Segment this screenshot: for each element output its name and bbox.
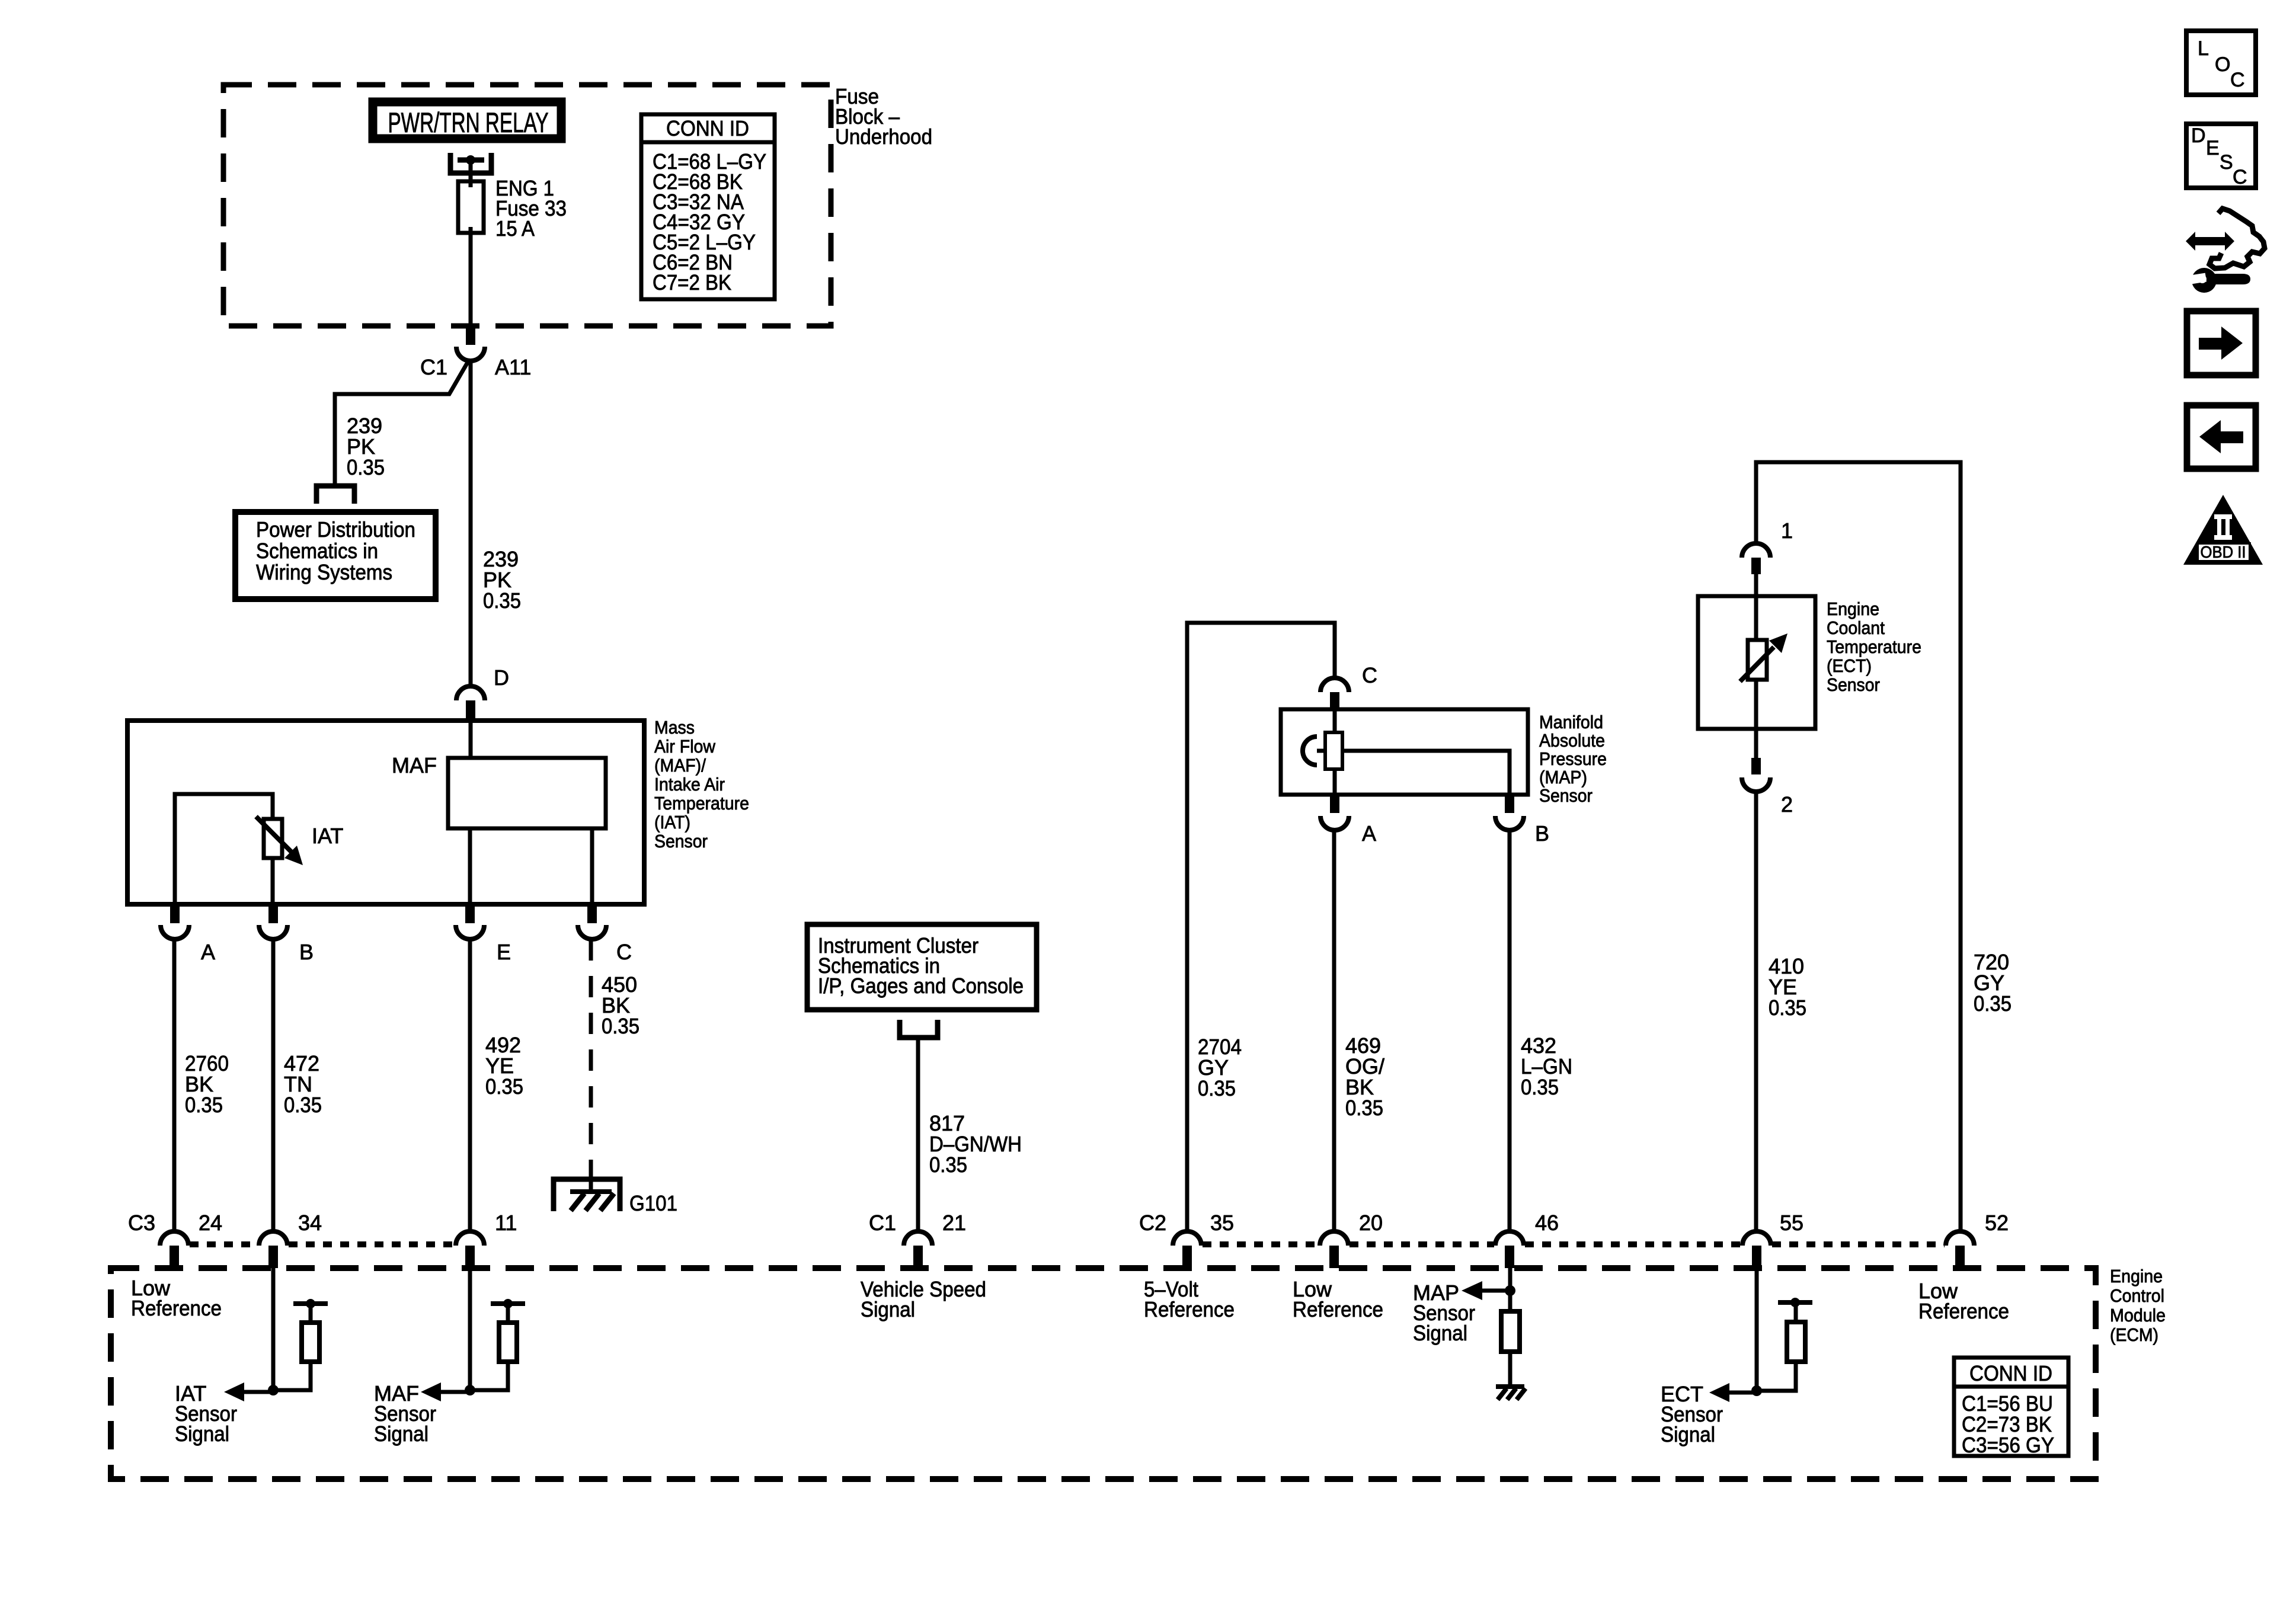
wire 2704 GY with loop to MAP pin C <box>1187 623 1335 1231</box>
svg-text:Schematics in: Schematics in <box>256 539 378 563</box>
svg-text:0.35: 0.35 <box>185 1093 223 1117</box>
svg-text:D: D <box>2191 124 2206 147</box>
svg-text:Signal: Signal <box>1413 1321 1467 1345</box>
ECM pin 34 <box>259 1211 322 1268</box>
wire relay to fuse <box>469 162 473 181</box>
MAF box pin E <box>456 904 511 964</box>
svg-text:0.35: 0.35 <box>602 1014 639 1038</box>
IAT thermistor <box>256 817 343 904</box>
ECM pin C2 35 <box>1139 1211 1234 1268</box>
svg-text:Wiring Systems: Wiring Systems <box>256 560 392 584</box>
svg-text:A11: A11 <box>495 355 531 379</box>
svg-text:IAT: IAT <box>312 824 343 848</box>
svg-text:MAF: MAF <box>392 753 437 777</box>
ECM pin 55 <box>1742 1211 1803 1268</box>
fuse block underhood dashed box <box>223 85 831 326</box>
icon DESC box <box>2186 124 2256 188</box>
svg-text:Temperature: Temperature <box>654 793 749 814</box>
MAF box pin B <box>259 904 314 964</box>
bracket under instrument cluster box <box>900 1020 938 1038</box>
svg-text:Sensor: Sensor <box>654 831 708 852</box>
svg-text:S: S <box>2220 151 2233 174</box>
svg-text:Reference: Reference <box>1293 1297 1383 1321</box>
svg-text:46: 46 <box>1535 1211 1559 1235</box>
MAF box pin A <box>161 904 215 964</box>
svg-text:C: C <box>2233 166 2247 188</box>
ECM pin C1 21 <box>869 1211 966 1268</box>
svg-text:C7=2 BK: C7=2 BK <box>653 270 731 295</box>
svg-text:24: 24 <box>199 1211 222 1235</box>
ECM pin C3 24 <box>128 1211 222 1268</box>
svg-text:0.35: 0.35 <box>284 1093 322 1117</box>
svg-text:Signal: Signal <box>1661 1422 1715 1446</box>
svg-text:0.35: 0.35 <box>483 588 521 613</box>
svg-text:Reference: Reference <box>131 1296 222 1320</box>
ground G101 <box>554 1162 677 1215</box>
wire 817 D-GN/WH <box>916 1038 920 1231</box>
svg-text:0.35: 0.35 <box>347 455 385 479</box>
svg-text:(ECT): (ECT) <box>1827 655 1872 676</box>
svg-text:Underhood: Underhood <box>835 124 932 149</box>
wire E into ECM with junction and arrow MAF Sensor Signal <box>374 1268 475 1446</box>
svg-text:11: 11 <box>495 1211 517 1235</box>
connector 1 (ECT) <box>1742 518 1793 596</box>
svg-text:C1: C1 <box>420 355 447 379</box>
svg-text:0.35: 0.35 <box>1769 996 1806 1020</box>
svg-text:L: L <box>2198 37 2209 60</box>
label Mass Air Flow (MAF)/ Intake Air Temperature (IAT) Sensor <box>654 717 749 852</box>
svg-text:Pressure: Pressure <box>1539 748 1607 769</box>
svg-text:2: 2 <box>1781 792 1793 817</box>
wire branch 239 PK to power distribution <box>335 360 469 487</box>
MAF pull-up resistor inside ECM <box>470 1299 525 1390</box>
svg-text:Power Distribution: Power Distribution <box>256 517 415 542</box>
IAT pull-up resistor inside ECM <box>273 1299 328 1390</box>
svg-text:C: C <box>1362 663 1377 687</box>
svg-text:C3: C3 <box>128 1211 155 1235</box>
svg-text:21: 21 <box>942 1211 966 1235</box>
svg-text:Intake Air: Intake Air <box>654 774 725 795</box>
wire E inside box <box>468 828 472 904</box>
svg-text:I/P, Gages and Console: I/P, Gages and Console <box>818 974 1024 998</box>
label Fuse Block Underhood <box>835 84 932 149</box>
svg-text:(IAT): (IAT) <box>654 812 690 833</box>
svg-text:CONN ID: CONN ID <box>1969 1361 2052 1385</box>
MAF box pin C <box>578 904 632 964</box>
ECT pull-up resistor inside ECM <box>1757 1298 1812 1391</box>
ECM pin 20 <box>1320 1211 1383 1268</box>
instrument cluster box <box>807 924 1037 1010</box>
svg-text:C1: C1 <box>869 1211 896 1235</box>
svg-text:20: 20 <box>1359 1211 1383 1235</box>
svg-text:0.35: 0.35 <box>929 1153 967 1177</box>
ECM pin 52 <box>1946 1211 2009 1268</box>
svg-text:Air Flow: Air Flow <box>654 736 716 757</box>
svg-text:E: E <box>497 940 511 964</box>
label Engine Coolant Temperature (ECT) Sensor <box>1827 598 1921 695</box>
label 5-Volt Reference <box>1144 1277 1235 1321</box>
svg-text:CONN ID: CONN ID <box>666 116 749 140</box>
ECM pin 46 <box>1495 1211 1559 1268</box>
svg-text:15 A: 15 A <box>495 216 535 241</box>
svg-text:C2: C2 <box>1139 1211 1166 1235</box>
label 239 PK 0.35 (main) <box>483 547 521 613</box>
svg-text:D: D <box>494 665 509 690</box>
svg-text:34: 34 <box>298 1211 322 1235</box>
wire 410 YE <box>1754 791 1758 1231</box>
svg-text:(ECM): (ECM) <box>2110 1324 2159 1345</box>
svg-text:PWR/TRN RELAY: PWR/TRN RELAY <box>388 107 549 138</box>
connector 2 (ECT) <box>1742 729 1793 817</box>
MAP pressure symbol <box>1303 737 1317 765</box>
wire 432 L-GN <box>1508 830 1512 1231</box>
conn id table (ECM) <box>1954 1358 2068 1457</box>
label Engine Control Module (ECM) <box>2110 1266 2166 1345</box>
MAP sensor signal network inside ECM <box>1413 1268 1526 1400</box>
icon OBD II triangle <box>2183 495 2263 565</box>
icon LOC box <box>2186 31 2256 95</box>
dotted connector line C2 group <box>1203 1241 1319 1247</box>
ECT thermistor <box>1740 596 1787 729</box>
IAT loop wire inside box <box>175 794 273 904</box>
svg-text:(MAF)/: (MAF)/ <box>654 755 706 776</box>
relay PWR/TRN RELAY box <box>373 102 561 139</box>
label Vehicle Speed Signal <box>861 1277 986 1321</box>
svg-text:OBD II: OBD II <box>2201 543 2246 561</box>
dotted connector line C3 group <box>190 1241 258 1247</box>
label Manifold Absolute Pressure (MAP) Sensor <box>1539 712 1607 806</box>
svg-text:Coolant: Coolant <box>1827 617 1885 638</box>
svg-text:0.35: 0.35 <box>1974 991 2012 1016</box>
power distribution schematics box <box>235 512 436 599</box>
svg-text:C3=56 GY: C3=56 GY <box>1962 1433 2054 1457</box>
svg-text:Control: Control <box>2110 1285 2164 1306</box>
ECM dashed box <box>111 1268 2096 1479</box>
MAP internal resistor <box>1325 710 1510 795</box>
MAP pin B <box>1495 795 1549 846</box>
label Low Reference (left) <box>131 1276 222 1320</box>
svg-text:35: 35 <box>1210 1211 1234 1235</box>
wire fuse to connector C1 <box>469 233 473 328</box>
svg-text:0.35: 0.35 <box>1345 1096 1383 1120</box>
connector C1/A11 <box>420 326 531 379</box>
wire 472 TN <box>271 939 276 1231</box>
wire 492 YE <box>468 939 472 1231</box>
svg-text:Mass: Mass <box>654 717 695 738</box>
MAF inner box <box>448 758 606 828</box>
connector C (MAP) <box>1320 663 1377 710</box>
fuse ENG 1 Fuse 33 15 A <box>458 181 484 233</box>
svg-text:Signal: Signal <box>374 1422 428 1446</box>
svg-text:Reference: Reference <box>1144 1297 1235 1321</box>
MAF/IAT sensor box <box>127 721 644 904</box>
bracket into power distribution box <box>316 486 354 504</box>
ECT sensor box <box>1698 596 1815 729</box>
svg-text:C: C <box>616 940 632 964</box>
svg-text:Reference: Reference <box>1918 1299 2009 1323</box>
wire 469 OG/BK <box>1332 830 1336 1231</box>
svg-text:A: A <box>201 940 215 964</box>
svg-text:55: 55 <box>1780 1211 1803 1235</box>
wire B into ECM with junction and arrow IAT Sensor Signal <box>175 1268 279 1446</box>
svg-text:Sensor: Sensor <box>1827 674 1880 695</box>
label Low Reference (right) <box>1918 1279 2009 1323</box>
svg-text:Module: Module <box>2110 1305 2166 1326</box>
wire D into MAF inner box <box>469 723 473 758</box>
svg-text:B: B <box>299 940 314 964</box>
ECM pin 11 <box>456 1211 517 1268</box>
wire C inside box <box>590 828 594 904</box>
label Low Reference (middle) <box>1293 1277 1383 1321</box>
svg-text:Manifold: Manifold <box>1539 712 1603 732</box>
svg-text:Signal: Signal <box>861 1297 915 1321</box>
svg-text:Signal: Signal <box>175 1422 229 1446</box>
svg-text:Temperature: Temperature <box>1827 636 1921 657</box>
svg-text:Sensor: Sensor <box>1539 785 1593 806</box>
label 720 GY 0.35 <box>1974 950 2012 1016</box>
svg-text:C: C <box>2230 69 2245 91</box>
MAP pin A <box>1320 795 1376 846</box>
svg-text:A: A <box>1362 821 1376 846</box>
svg-text:0.35: 0.35 <box>485 1074 523 1099</box>
label 239 PK 0.35 (branch) <box>347 414 385 479</box>
wire 2760 BK <box>172 939 177 1231</box>
wire 450 BK dashed to ground <box>589 939 593 1162</box>
icon wiring repair (arrows + wrench) <box>2186 209 2265 293</box>
svg-text:O: O <box>2215 53 2230 76</box>
conn id table (fuse block) <box>641 114 775 299</box>
svg-text:B: B <box>1535 821 1549 846</box>
icon left arrow box <box>2187 405 2256 469</box>
svg-text:G101: G101 <box>629 1191 677 1215</box>
relay terminal symbol <box>450 153 491 173</box>
svg-text:52: 52 <box>1985 1211 2009 1235</box>
svg-text:(MAP): (MAP) <box>1539 767 1587 788</box>
svg-text:Engine: Engine <box>1827 598 1879 619</box>
wire 55 into ECM with junction and arrow ECT Sensor Signal <box>1661 1268 1762 1446</box>
svg-text:0.35: 0.35 <box>1521 1075 1559 1099</box>
svg-text:1: 1 <box>1781 518 1793 543</box>
svg-text:Absolute: Absolute <box>1539 730 1605 751</box>
svg-text:E: E <box>2206 137 2220 159</box>
MAP sensor box <box>1281 709 1528 795</box>
connector D <box>456 665 509 719</box>
wire 239 PK main down to D <box>469 360 473 686</box>
icon right arrow box <box>2187 311 2256 375</box>
svg-text:0.35: 0.35 <box>1198 1076 1236 1100</box>
svg-text:Engine: Engine <box>2110 1266 2163 1286</box>
ECT loop wire (pin1 up over to 720 GY down) <box>1756 462 1961 1232</box>
